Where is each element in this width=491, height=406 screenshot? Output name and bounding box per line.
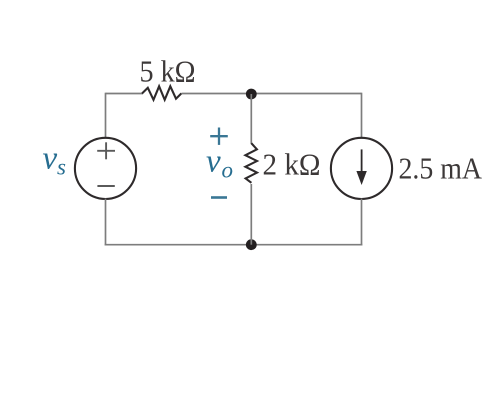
current source circle [331,138,392,199]
label plus of vo [210,128,228,145]
wire top-right segment [182,93,362,95]
wire middle vertical bottom [250,184,252,245]
svg-text:v: v [43,141,58,177]
wire bottom [105,244,363,246]
node top junction dot [246,89,257,100]
voltage source vs circle [75,138,136,199]
node bottom junction dot [246,239,257,250]
voltage source plus sign [97,142,115,159]
wire top-left segment [106,93,144,95]
current source arrow [356,149,366,185]
resistor 2 kΩ zigzag [245,143,257,183]
voltage source minus sign [97,185,114,187]
svg-text:s: s [57,155,66,180]
wire middle vertical top [250,94,252,144]
svg-text:2.5 mA: 2.5 mA [399,151,483,186]
resistor 5 kΩ zigzag [142,86,181,100]
label minus of vo [211,196,227,199]
wire left vertical top [105,93,107,139]
svg-text:o: o [222,158,234,183]
wire right vertical top [361,93,363,139]
wire right vertical bottom [361,199,363,246]
wire left vertical bottom [105,199,107,246]
svg-text:2 kΩ: 2 kΩ [263,147,321,182]
svg-text:5 kΩ: 5 kΩ [140,54,196,89]
svg-text:v: v [206,144,221,180]
